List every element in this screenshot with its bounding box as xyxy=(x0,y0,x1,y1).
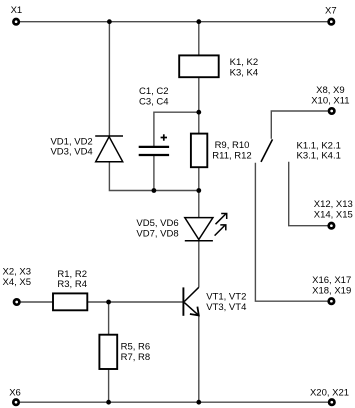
terminal X1 xyxy=(13,19,18,24)
terminal X8-X11 xyxy=(329,108,334,113)
svg-text:R11, R12: R11, R12 xyxy=(212,150,251,161)
svg-text:VT3, VT4: VT3, VT4 xyxy=(206,302,246,313)
wire left vertical from top rail to diode VD1-VD4 xyxy=(108,22,110,136)
wire top rail X1 to X7 xyxy=(20,21,328,23)
wire bottom rail X6 to X20-X21 xyxy=(20,401,329,403)
terminal X16-X19 xyxy=(329,299,334,304)
svg-text:X10, X11: X10, X11 xyxy=(311,95,349,106)
label X8, X9 / X10, X11 xyxy=(311,85,349,106)
junction dot resistor R9 bottom node xyxy=(196,188,201,193)
wire transistor emitter to bottom rail xyxy=(198,316,200,403)
wire capacitor branch horizontal xyxy=(154,112,199,146)
wire switch pole from X8-X11 terminal xyxy=(271,111,328,139)
LED emission arrow upper xyxy=(216,214,227,225)
wire diode bottom down and right to resistor R9 bottom node xyxy=(109,162,198,191)
wire capacitor bottom to bottom node xyxy=(153,155,155,190)
svg-text:VD5, VD6: VD5, VD6 xyxy=(136,218,178,229)
label K1, K2 / K3, K4 xyxy=(230,57,259,79)
svg-text:C1, C2: C1, C2 xyxy=(139,86,169,97)
svg-text:VD3, VD4: VD3, VD4 xyxy=(50,147,92,158)
relay contact K1.1, K2.1, K3.1, K4.1 switch blade xyxy=(261,139,273,162)
terminal X6 xyxy=(13,400,18,405)
svg-text:VD7, VD8: VD7, VD8 xyxy=(136,228,178,239)
svg-text:R1, R2: R1, R2 xyxy=(57,269,87,280)
junction dot base node / R5 branch xyxy=(106,300,111,305)
junction dot capacitor bottom node xyxy=(152,188,157,193)
wire relay branch from top rail to relay coil xyxy=(198,22,200,56)
svg-text:R3, R4: R3, R4 xyxy=(57,279,87,290)
junction dot top rail / relay branch xyxy=(196,19,201,24)
resistor R9, R10, R11, R12 xyxy=(191,134,207,168)
resistor R1, R2, R3, R4 xyxy=(53,293,87,310)
transistor VT1, VT2, VT3, VT4 xyxy=(183,287,198,316)
diode VD1, VD2, VD3, VD4 xyxy=(95,136,123,162)
wire base node down to resistor R5 xyxy=(108,302,110,335)
wire relay coil to resistor R9 xyxy=(198,77,200,133)
svg-text:X6: X6 xyxy=(9,388,21,399)
wire switch right contact to X12-X15 terminal xyxy=(289,162,328,226)
label VD5, VD6 / VD7, VD8 xyxy=(136,218,178,239)
svg-text:X2, X3: X2, X3 xyxy=(3,267,32,278)
svg-text:X7: X7 xyxy=(325,5,337,16)
svg-text:K1.1, K2.1: K1.1, K2.1 xyxy=(297,140,341,151)
terminal X2-X5 xyxy=(14,299,19,304)
label X16, X17 / X18, X19 xyxy=(312,275,351,296)
svg-text:C3, C4: C3, C4 xyxy=(139,97,169,108)
label C1, C2 / C3, C4 xyxy=(139,86,169,107)
label VT1, VT2 / VT3, VT4 xyxy=(206,292,246,314)
relay coil K1, K2, K3, K4 xyxy=(179,55,219,77)
wire switch left contact to X16-X19 terminal xyxy=(255,163,327,302)
wire resistor R1 to transistor base xyxy=(87,301,183,303)
label X2, X3 / X4, X5 xyxy=(3,267,32,288)
label R9, R10 / R11, R12 xyxy=(212,140,251,161)
junction dot top rail / diode branch xyxy=(107,19,112,24)
svg-text:X8, X9: X8, X9 xyxy=(316,85,345,96)
svg-text:X14, X15: X14, X15 xyxy=(314,209,353,220)
resistor R5, R6, R7, R8 xyxy=(99,335,117,369)
svg-text:K1, K2: K1, K2 xyxy=(230,57,259,68)
label K1.1, K2.1 / K3.1, K4.1 xyxy=(297,140,341,161)
wire resistor R5 to bottom rail xyxy=(108,369,110,402)
junction dot bottom rail / emitter xyxy=(196,400,201,405)
svg-text:K3, K4: K3, K4 xyxy=(230,68,259,79)
svg-text:VT1, VT2: VT1, VT2 xyxy=(206,292,246,303)
svg-text:X18, X19: X18, X19 xyxy=(312,285,351,296)
terminal X7 xyxy=(329,19,334,24)
svg-text:X1: X1 xyxy=(11,5,23,16)
label R1, R2 / R3, R4 xyxy=(57,269,87,290)
svg-text:X4, X5: X4, X5 xyxy=(3,277,32,288)
label VD1, VD2 / VD3, VD4 xyxy=(50,136,92,157)
svg-text:R7, R8: R7, R8 xyxy=(121,352,151,363)
svg-text:X12, X13: X12, X13 xyxy=(314,199,353,210)
terminal X12-X15 xyxy=(329,223,334,228)
svg-text:X20, X21: X20, X21 xyxy=(310,387,349,398)
label R5, R6 / R7, R8 xyxy=(121,342,151,363)
capacitor C1, C2, C3, C4 xyxy=(139,134,169,155)
wire resistor R9 to LED VD5-VD8 xyxy=(198,167,200,217)
wire LED cathode to transistor collector xyxy=(198,241,200,287)
LED VD5, VD6, VD7, VD8 xyxy=(185,218,213,241)
wire X2-X5 terminal to resistor R1 xyxy=(20,301,53,303)
svg-text:X16, X17: X16, X17 xyxy=(312,275,351,286)
junction dot relay wire / capacitor branch xyxy=(196,110,201,115)
junction dot bottom rail / R5 xyxy=(106,400,111,405)
label X12, X13 / X14, X15 xyxy=(314,199,353,221)
svg-text:K3.1, K4.1: K3.1, K4.1 xyxy=(297,151,341,162)
terminal X20-X21 xyxy=(329,400,334,405)
LED emission arrow lower xyxy=(215,225,226,236)
svg-text:R9, R10: R9, R10 xyxy=(215,140,250,151)
